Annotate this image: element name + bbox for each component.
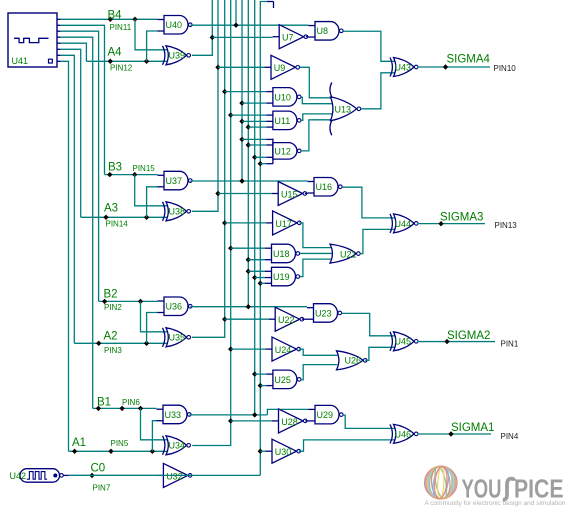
wire A1 branch to U33 input B (152, 421, 156, 452)
wire C0 net vertical (69, 474, 193, 476)
node P3 to U15 junction (215, 191, 220, 196)
OR gate U21 (330, 244, 356, 263)
wire U29 output to U46 input A (343, 415, 396, 428)
wire SIGMA4 output (418, 66, 491, 68)
svg-text:U44: U44 (395, 219, 412, 229)
buffer U9 (271, 55, 296, 79)
svg-text:U39: U39 (169, 51, 186, 61)
buffer U15 (278, 182, 303, 206)
svg-text:U33: U33 (165, 410, 182, 420)
svg-text:PIN5: PIN5 (111, 439, 129, 448)
wire U41 pin5 to A4 corner (61, 43, 87, 61)
wire P1 to U28 input (231, 420, 272, 422)
wire U16 output to U44 input A (342, 187, 396, 218)
wire C0 to U30 input (260, 450, 265, 452)
svg-text:U34: U34 (169, 441, 186, 451)
wire U25 output to U26 input B (301, 365, 337, 380)
wire B4 net (U41 pin1 to U40) (61, 18, 158, 20)
node G2 to U12 junction (246, 142, 251, 147)
node B1 label anchor (96, 406, 101, 411)
svg-text:U37: U37 (166, 176, 183, 186)
wire U41 pin3 to B2 corner (61, 31, 99, 301)
svg-text:U42: U42 (10, 471, 27, 481)
wire U24 output to U26 input A (299, 349, 338, 355)
word generator U41 (8, 13, 57, 67)
wire U41 pin6 to A3 corner (61, 49, 81, 217)
wire U41 pin7 to A2 corner (61, 55, 75, 343)
svg-text:A3: A3 (104, 202, 118, 214)
svg-text:U25: U25 (274, 375, 291, 385)
svg-text:PIN12: PIN12 (110, 63, 133, 72)
svg-text:U13: U13 (335, 105, 352, 115)
wire C0 net to U32 (69, 474, 157, 476)
wire U32 out to riser (192, 474, 260, 476)
svg-text:C0: C0 (91, 462, 106, 474)
AND gate U36 (164, 297, 188, 316)
AND gate U23 (314, 304, 338, 323)
wire P2 net vertical (U35 out up) (192, 0, 225, 337)
svg-text:A1: A1 (72, 437, 86, 449)
wire G1 to U19 input B (255, 277, 265, 279)
wire P1 to U11 input A (231, 114, 267, 116)
node A1 branch junction (150, 449, 155, 454)
svg-text:U10: U10 (274, 92, 291, 102)
node B3 label anchor (107, 172, 112, 177)
svg-text:PIN11: PIN11 (110, 23, 132, 32)
buffer U17 (273, 211, 298, 235)
node C0 to U12 junction (258, 161, 263, 166)
node G2 to U19 junction (246, 269, 251, 274)
wire B2 net (99, 300, 158, 302)
node P2 to U10 junction (222, 89, 227, 94)
svg-text:U19: U19 (273, 272, 290, 282)
svg-text:U8: U8 (317, 26, 329, 36)
svg-text:B4: B4 (108, 10, 123, 22)
node G1 to U25 junction (252, 371, 257, 376)
node SIGMA2 label anchor (444, 339, 449, 344)
svg-text:U45: U45 (395, 337, 412, 347)
node A3 label anchor (103, 215, 108, 220)
svg-text:U29: U29 (317, 410, 334, 420)
svg-text:B1: B1 (97, 396, 111, 408)
XOR gate U38 (166, 202, 187, 221)
node G3 junction on U37 output (239, 178, 244, 183)
wire P2 to U17 input (225, 222, 266, 224)
svg-text:U28: U28 (281, 417, 298, 427)
wire U7 output to U8 input B (306, 36, 309, 38)
node A1 label anchor (72, 449, 77, 454)
node G2 to U11 junction (246, 124, 251, 129)
wire A2 branch to U36 input B (147, 313, 158, 344)
XOR gate U45 (394, 332, 415, 351)
wire G4 net vertical (235, 0, 237, 25)
node B2 branch junction (138, 299, 143, 304)
node G2 junction on U36 output (246, 304, 251, 309)
svg-text:U32: U32 (166, 471, 183, 481)
AND gate U11 (273, 111, 297, 130)
svg-text:U9: U9 (274, 63, 286, 73)
wire G2 to U12 input B (248, 144, 266, 146)
wire P1 to U24 input (231, 348, 266, 350)
wire G2 net vertical (247, 0, 249, 307)
buffer U24 (272, 337, 297, 361)
wire SIGMA2 output (418, 341, 496, 343)
wire U33 output to riser (189, 414, 267, 416)
wire B4 branch to U39 input A (135, 19, 167, 50)
wire U37 output to U16 (190, 180, 307, 182)
wire B1 branch to U34 input A (141, 408, 168, 439)
wire U41 pin4 to B1 corner (61, 37, 93, 408)
wire G1 to U25 input A (255, 373, 267, 375)
svg-text:U35: U35 (169, 333, 186, 343)
AND gate U19 (272, 267, 296, 286)
buffer U22 (275, 307, 300, 331)
node P1 to U24 junction (228, 346, 233, 351)
svg-text:U16: U16 (316, 182, 333, 192)
svg-text:U46: U46 (395, 429, 412, 439)
wire U11 output to U13 input C (301, 114, 333, 120)
svg-text:B2: B2 (104, 288, 118, 300)
wire A3 net (81, 216, 167, 218)
svg-text:A4: A4 (108, 47, 123, 59)
svg-text:PIN15: PIN15 (133, 164, 156, 173)
wire U21 output to U44 input B (360, 229, 396, 253)
node P1 to U18 junction (228, 246, 233, 251)
wire G1 to U12 input C (255, 156, 267, 158)
svg-text:U15: U15 (281, 189, 298, 199)
svg-text:PIN6: PIN6 (122, 398, 140, 407)
AND gate U40 (164, 16, 188, 35)
wire P3 net vertical (U38 out up) (192, 0, 218, 211)
svg-text:SIGMA3: SIGMA3 (440, 211, 483, 223)
svg-text:U17: U17 (275, 219, 292, 229)
wire U12 output to U13 input D (301, 120, 331, 151)
node P3 to U9 junction (215, 65, 220, 70)
wire U8 output to U43 input A (343, 31, 396, 61)
wire U41 pin2 to B3 corner (61, 25, 105, 174)
wire U23 output to U45 input A (342, 313, 396, 335)
wire G2 to U11 input C (248, 126, 266, 128)
wire C0 top stub (267, 1, 274, 3)
AND gate U25 (273, 370, 297, 389)
node A1 pin label anchor (108, 449, 113, 454)
svg-text:PIN7: PIN7 (93, 483, 111, 492)
node A4 label anchor (108, 59, 113, 64)
buffer U7 (279, 25, 304, 49)
node G1 to U19 junction (252, 275, 257, 280)
node C0 label anchor (89, 473, 94, 478)
svg-text:U7: U7 (282, 33, 294, 43)
wire B1 net (93, 407, 157, 409)
wire U22 output to U23 input B (302, 318, 307, 320)
svg-text:U41: U41 (12, 56, 29, 66)
svg-text:PIN1: PIN1 (501, 339, 519, 348)
wire B3 branch to U38 input A (135, 175, 167, 206)
svg-text:SIGMA2: SIGMA2 (447, 330, 490, 342)
wire C0 to U12 input D (260, 163, 266, 165)
AND gate U16 (314, 178, 338, 197)
wire C0 to U25 input B (260, 385, 266, 387)
U42 output pin circle (60, 474, 64, 478)
wire B2 branch to U35 input A (141, 301, 168, 331)
wire G3 net vertical (241, 0, 243, 181)
wire A3 branch to U37 input B (147, 187, 158, 218)
node B4 label anchor (108, 17, 113, 22)
XOR gate U35 (166, 328, 187, 347)
svg-text:B3: B3 (108, 161, 122, 173)
wire P3 to U15 input (218, 193, 272, 195)
OR gate U13 (331, 97, 357, 121)
wire U17 output to U21 input A (299, 223, 331, 248)
OR gate U26 (337, 351, 364, 370)
wire U15 output to U16 input B (305, 193, 308, 195)
buffer U28 (279, 409, 304, 433)
wire G2 to U18 input B (248, 259, 265, 261)
node G4 junction on U40 output (233, 23, 238, 28)
wire U41 pin8 to A1 corner (61, 61, 69, 451)
node P1 to U28 junction (228, 418, 233, 423)
svg-text:PIN2: PIN2 (104, 303, 122, 312)
wire U30 output to U46 input B (299, 440, 396, 451)
logo youspice ball (425, 466, 458, 499)
wire C0 to U19 input C (260, 282, 265, 284)
svg-text:U18: U18 (273, 249, 290, 259)
AND gate U18 (272, 244, 296, 263)
node C0 to U30 junction (258, 449, 263, 454)
node A2 branch junction (144, 341, 149, 346)
node P4 to U7 junction (210, 35, 215, 40)
wire U42 output stub (63, 474, 68, 476)
wire U18 output to U21 input B (300, 252, 333, 254)
wire U33 output step to U29 input A (267, 409, 308, 415)
node B1 pin label anchor (119, 406, 124, 411)
XOR gate U34 (166, 436, 187, 455)
svg-text:U38: U38 (169, 207, 186, 217)
node P2 to U17 junction (222, 220, 227, 225)
wire C0 vertical riser (260, 2, 267, 476)
node P1 to U11 junction (228, 112, 233, 117)
XOR gate U43 (394, 58, 415, 77)
AND gate U8 (315, 22, 339, 41)
wire A1 net (69, 450, 168, 452)
AND gate U12 (273, 143, 297, 160)
AND gate U37 (164, 171, 188, 190)
svg-text:PIN10: PIN10 (494, 64, 517, 73)
XOR gate U44 (394, 214, 415, 233)
node G2 to U18 junction (246, 257, 251, 262)
XOR gate U39 (166, 46, 187, 65)
svg-text:U11: U11 (274, 116, 290, 126)
wire P3 to U9 input (218, 66, 265, 68)
node G3 to U11 junction (239, 119, 244, 124)
node G3 to U10 junction (239, 100, 244, 105)
svg-text:U30: U30 (275, 447, 292, 457)
AND gate U10 (273, 88, 297, 107)
buffer U32 (163, 463, 188, 487)
svg-text:A2: A2 (104, 331, 118, 343)
svg-text:U40: U40 (166, 20, 183, 30)
node B2 label anchor (102, 299, 107, 304)
svg-text:U26: U26 (345, 356, 362, 366)
node A2 label anchor (96, 341, 101, 346)
node C0 to U19 junction (258, 281, 263, 286)
node A3 branch junction (144, 215, 149, 220)
svg-text:U22: U22 (278, 315, 295, 325)
svg-text:U21: U21 (340, 249, 357, 259)
svg-text:PIN14: PIN14 (106, 219, 129, 228)
node SIGMA1 label anchor (448, 431, 453, 436)
node B1 branch junction (138, 406, 143, 411)
svg-text:PIN3: PIN3 (104, 346, 122, 355)
wire P1 net vertical (U34 out up) (192, 0, 231, 446)
node B3 branch junction (132, 172, 137, 177)
wire U9 output to U13 input A (300, 67, 331, 98)
wire P4 net vertical (U39 out up) (192, 0, 213, 55)
svg-text:SIGMA4: SIGMA4 (447, 54, 491, 66)
node G3 to U12 junction (239, 137, 244, 142)
node G1 junction on U33 output (252, 412, 257, 417)
wire P1 to U18 input A (231, 247, 265, 249)
svg-text:U36: U36 (166, 302, 183, 312)
clock source U42 (20, 469, 60, 483)
buffer U30 (272, 439, 297, 463)
wire U26 output to U45 input B (365, 347, 396, 360)
wire G2 to U19 input A (248, 270, 265, 272)
svg-text:U43: U43 (395, 62, 412, 72)
wire P4 to U7 input (212, 36, 272, 38)
wire G3 to U12 input A (242, 138, 266, 140)
wire U28 output to U29 input B (305, 420, 308, 422)
svg-text:PIN13: PIN13 (495, 221, 518, 230)
node B4 branch junction (132, 17, 137, 22)
node G1 to U12 junction (252, 155, 257, 160)
AND gate U29 (315, 405, 339, 424)
wire SIGMA1 output (418, 433, 492, 435)
wire A4 branch to U40 input B (147, 31, 158, 61)
wire G3 to U11 input B (242, 120, 266, 122)
wire G1 net vertical (254, 0, 256, 415)
wire A4 net (86, 60, 167, 62)
svg-text:U24: U24 (275, 345, 292, 355)
node P2 to U22 junction (222, 317, 227, 322)
svg-text:A community for electronic des: A community for electronic design and si… (425, 500, 566, 507)
wire U19 output to U21 input C (300, 259, 332, 276)
wire B3 net (105, 174, 158, 176)
svg-text:PIN4: PIN4 (501, 432, 519, 441)
node SIGMA3 label anchor (438, 221, 443, 226)
wire P2 to U10 input A (225, 91, 267, 93)
node SIGMA4 label anchor (443, 64, 448, 69)
svg-text:U12: U12 (274, 146, 291, 156)
wire U13 output to U43 input B (361, 73, 396, 109)
wire G3 to U10 input B (242, 102, 266, 104)
svg-text:SIGMA1: SIGMA1 (451, 422, 494, 434)
wire A2 net (74, 342, 167, 344)
wire U40 output to U8 (190, 24, 308, 26)
XOR gate U46 (394, 424, 415, 443)
wire P2 to U22 input (225, 318, 269, 320)
AND gate U33 (163, 405, 187, 424)
U41 output pin stubs (57, 18, 61, 20)
wire U36 output to U23 (190, 306, 307, 308)
svg-text:U23: U23 (315, 308, 332, 318)
node C0 to U25 junction (258, 383, 263, 388)
wire U10 output to U13 input B (301, 97, 333, 103)
node A4 branch junction (144, 59, 149, 64)
wire SIGMA3 output (418, 223, 486, 225)
